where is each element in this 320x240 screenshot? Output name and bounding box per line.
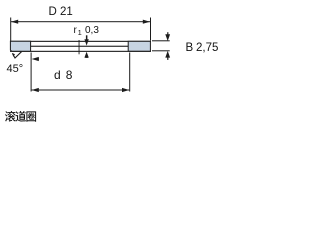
- dimension d: left extension line: [31, 53, 32, 92]
- svg-text:21: 21: [60, 6, 73, 18]
- dimension D: left arrowhead: [11, 20, 18, 24]
- dimension d: short arrow tail: [36, 58, 39, 59]
- dimension r1: upper arrowhead pointing down: [84, 39, 88, 45]
- dimension D: right extension line: [150, 18, 151, 41]
- washer bore middle line: [31, 46, 129, 47]
- dimension D: left extension line: [10, 18, 11, 42]
- dimension B: top extension line: [152, 40, 170, 41]
- svg-text:2,75: 2,75: [196, 42, 218, 54]
- washer left cross-section fill: [10, 41, 30, 51]
- washer bottom surface line: [10, 51, 151, 52]
- dimension B: upper arrow line: [167, 32, 168, 36]
- svg-text:1: 1: [78, 28, 82, 37]
- 45 degree chamfer leader line: [12, 52, 21, 58]
- dimension D: right arrowhead: [143, 20, 150, 24]
- 45 degree chamfer arrowhead: [12, 53, 15, 57]
- svg-text:d: d: [54, 68, 61, 82]
- svg-text:8: 8: [66, 68, 73, 82]
- dimension r1: upper arrow line: [86, 35, 88, 42]
- dimension B: bottom extension line: [152, 50, 170, 51]
- dimension B: upper arrowhead pointing down: [165, 34, 170, 41]
- svg-text:45°: 45°: [7, 63, 24, 75]
- dimension r1: extension tick line: [78, 40, 81, 54]
- washer right cross-section fill: [128, 41, 150, 51]
- svg-text:B: B: [186, 42, 194, 54]
- dimension r1: lower arrowhead pointing up: [84, 52, 88, 58]
- svg-text:D: D: [49, 6, 57, 18]
- caption 滚道圈 (raceway washer) as vector outlines: [5, 111, 36, 122]
- dimension B: lower arrow line: [167, 57, 168, 60]
- dimension d: short left-pointing arrow at bore line: [32, 57, 39, 61]
- washer top surface line: [10, 41, 151, 42]
- dimension r1: lower tail stub: [85, 56, 88, 58]
- dimension d: dimension line: [32, 90, 130, 91]
- svg-text:0,3: 0,3: [85, 25, 99, 36]
- dimension D: dimension line: [11, 21, 150, 22]
- dimension d: right arrowhead: [122, 88, 129, 92]
- dimension d: right extension line: [129, 53, 130, 92]
- dimension B: lower arrowhead pointing up: [165, 51, 170, 58]
- dimension d: left arrowhead: [32, 88, 39, 92]
